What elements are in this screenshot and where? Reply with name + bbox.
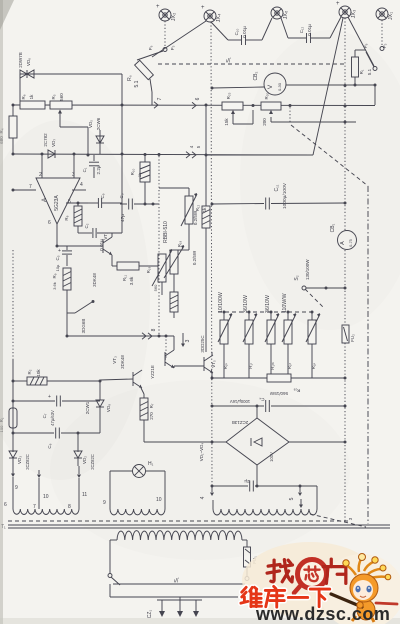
- resistor R11 3.6k: [112, 262, 158, 285]
- core line 1: [8, 524, 390, 526]
- wire bus y336: [66, 313, 175, 338]
- svg-text:R₆: R₆: [21, 94, 26, 99]
- svg-text:+: +: [336, 1, 340, 7]
- rheostat R18 560: [146, 249, 172, 295]
- zener VD8 2CW1: [85, 381, 111, 433]
- svg-text:2CW6: 2CW6: [96, 117, 101, 130]
- capacitor C11 1000u/100V: [212, 182, 347, 209]
- svg-text:0.01µ: 0.01µ: [242, 26, 247, 38]
- diode VD7 2C782: [43, 133, 56, 158]
- rheostat R1E: [306, 311, 320, 379]
- svg-text:6: 6: [195, 97, 201, 100]
- svg-text:0.2/5W: 0.2/5W: [192, 250, 197, 265]
- core dashed: [1, 521, 348, 530]
- svg-text:R₅: R₅: [51, 94, 56, 99]
- svg-text:JX₂: JX₂: [171, 13, 177, 22]
- watermark weiku yixia headline: [241, 587, 262, 606]
- terminal post JX6: [271, 7, 289, 19]
- ganged-switch dashed link S1: [158, 57, 345, 64]
- svg-text:+: +: [201, 5, 205, 11]
- node arrow 8: [142, 328, 157, 339]
- watermark pian character: [323, 559, 346, 583]
- wire bridge left: [212, 441, 226, 443]
- resistor R3 100: [0, 408, 17, 432]
- switch S1 mains: [108, 574, 245, 586]
- svg-text:560: 560: [59, 93, 64, 101]
- svg-text:5.1: 5.1: [134, 80, 140, 87]
- node arrow 7: [154, 97, 163, 108]
- svg-text:JX₄: JX₄: [216, 13, 222, 22]
- svg-text:VT₅: VT₅: [211, 360, 216, 368]
- rheostat R20 200: [261, 92, 356, 125]
- ammeter CB1: [330, 223, 357, 249]
- wire VT4 base: [165, 336, 166, 359]
- voltmeter CB2: [253, 71, 286, 95]
- wire pin7: [12, 189, 37, 192]
- capacitor C1 2.2u: [82, 155, 101, 178]
- resistor R0 5.1 (slanted): [127, 60, 153, 105]
- svg-text:FU₂: FU₂: [350, 334, 355, 342]
- svg-text:P₆: P₆: [148, 45, 153, 50]
- wire bus x212 dotted: [211, 22, 214, 488]
- svg-text:4: 4: [189, 145, 194, 148]
- resistor R24 0.2/5W: [170, 250, 197, 318]
- dashed corner bottom: [310, 514, 366, 527]
- wire bus y154: [12, 153, 314, 157]
- gang dashed link: [218, 311, 316, 313]
- wire JX2 stem: [163, 21, 167, 52]
- svg-text:560: 560: [153, 284, 158, 291]
- watermark zhao character: [267, 560, 292, 582]
- winding W4 primary: [117, 531, 242, 540]
- capacitor C2 0.01u: [78, 223, 122, 250]
- fuse FU2: [342, 325, 355, 343]
- svg-text:S₁: S₁: [226, 57, 232, 63]
- capacitor C6 47u: [119, 193, 159, 222]
- op-amp U1 5G23A: [29, 172, 83, 226]
- svg-text:2DW7B: 2DW7B: [18, 52, 23, 68]
- svg-text:P₅: P₅: [170, 45, 175, 50]
- watermark magnifier ring: [294, 560, 327, 594]
- terminal post JX2: [156, 4, 177, 21]
- wire bridge bottom: [256, 465, 259, 488]
- wire opamp out: [56, 224, 59, 248]
- transistor VT1 3DK48: [92, 232, 112, 287]
- dashed diagonal to border: [291, 125, 368, 186]
- svg-text:3: 3: [185, 339, 191, 342]
- lamp H1: [103, 461, 165, 509]
- terminal 9 arrow: [4, 466, 18, 509]
- transistor VT4 YZ21E: [150, 336, 204, 379]
- wire x78: [77, 433, 79, 450]
- bridge rectifier VD1-VD4: [199, 418, 289, 465]
- wire bridge top: [256, 405, 259, 419]
- node arrow 6: [192, 97, 201, 108]
- wire output top: [211, 87, 265, 90]
- wire base VT1: [57, 245, 103, 247]
- wire bridge right: [289, 441, 345, 443]
- wire bus x345 dotted: [344, 18, 347, 522]
- resistor R23 0.2/5W: [193, 206, 210, 352]
- svg-text:10: 10: [43, 494, 49, 500]
- winding W2: [110, 509, 165, 515]
- capacitor C8: [13, 428, 100, 449]
- rheostat R1A: [218, 292, 232, 378]
- resistor R4 680: [0, 105, 17, 154]
- wire JX3 to S1 right contact: [348, 17, 374, 66]
- wire JX3 to corner: [313, 18, 343, 155]
- winding W3: [213, 509, 317, 515]
- svg-text:8: 8: [151, 328, 157, 331]
- svg-text:15k: 15k: [224, 118, 229, 126]
- svg-text:CB₂: CB₂: [253, 71, 259, 80]
- svg-text:36/10W: 36/10W: [243, 295, 249, 313]
- svg-text:6: 6: [4, 502, 7, 508]
- wire bus x13 middle: [12, 250, 15, 452]
- resistor R1 5.1: [352, 50, 373, 85]
- capacitor C5 10u: [55, 246, 72, 271]
- rheostat R1D: [282, 293, 296, 378]
- wire JX1 stem: [380, 20, 384, 51]
- wire y156 right: [206, 154, 313, 156]
- svg-text:7: 7: [157, 97, 163, 100]
- capacitor C3 2u wire: [212, 479, 317, 492]
- wire vertical x206: [205, 105, 207, 206]
- svg-text:1k: 1k: [137, 173, 142, 177]
- diode VD2 2CZ82C: [74, 450, 95, 470]
- svg-text:VD₆: VD₆: [26, 58, 31, 66]
- svg-text:JX₁: JX₁: [388, 12, 394, 20]
- terminal 4 arrow: [200, 486, 214, 509]
- svg-text:3DD25C: 3DD25C: [200, 335, 205, 353]
- wire pin4 stub: [72, 189, 86, 191]
- zener VD6 2DW7B: [18, 52, 122, 152]
- svg-text:C₁₂: C₁₂: [299, 26, 304, 33]
- terminal 10 arrow: [33, 470, 49, 510]
- svg-text:VD₅: VD₅: [88, 120, 93, 128]
- svg-text:R₁₉: R₁₉: [177, 241, 182, 248]
- zener VD5 2CW6: [88, 117, 104, 154]
- core line 2: [8, 527, 390, 529]
- wire primary left: [110, 540, 117, 573]
- svg-text:RBBI-510: RBBI-510: [163, 221, 169, 243]
- svg-text:9: 9: [15, 485, 18, 491]
- wire x122: [121, 152, 123, 233]
- rheostat R25 15k: [222, 92, 253, 125]
- svg-text:3: 3: [348, 517, 353, 520]
- switch S2: [294, 259, 345, 308]
- capacitor C7 47u/63V: [13, 394, 100, 426]
- mascot head: [350, 574, 378, 602]
- transistor VT3 3DK48: [100, 355, 144, 398]
- terminal 11 arrow: [68, 466, 87, 510]
- svg-text:R₂₆: R₂₆: [293, 388, 300, 393]
- rheostat R12 1k: [159, 188, 207, 250]
- winding W1: [13, 509, 79, 515]
- watermark glow: [242, 542, 378, 618]
- terminal post JX1: [376, 8, 394, 20]
- svg-text:JX₃: JX₃: [351, 10, 357, 19]
- mascot: [331, 554, 397, 623]
- svg-text:R₁ₘ: R₁ₘ: [270, 362, 275, 370]
- svg-text:R₀: R₀: [127, 75, 133, 81]
- label RBBI-510: [163, 221, 169, 243]
- wire W3 right leg: [316, 486, 318, 509]
- svg-text:R₁ₗ: R₁ₗ: [248, 363, 253, 369]
- switch S1 blade to R0: [137, 51, 163, 60]
- terminal 5 arrow: [289, 486, 303, 508]
- mascot body: [357, 600, 375, 620]
- resistor R8: [64, 203, 82, 233]
- diode VD3 2CZ82C: [9, 450, 30, 470]
- capacitor C12 0.01u: [281, 17, 341, 43]
- label P6 right: [363, 43, 387, 48]
- svg-text:1k: 1k: [29, 94, 34, 100]
- resistor R10 1k: [130, 155, 150, 204]
- svg-text:+: +: [156, 4, 160, 10]
- wire main bus y105: [12, 104, 376, 108]
- fuse FU1: [242, 540, 257, 581]
- capacitor C4 1000u/16V: [212, 397, 345, 412]
- wire bus y378: [212, 377, 345, 379]
- terminal post JX4: [201, 5, 222, 22]
- watermark url text: [256, 604, 390, 624]
- mascot tentacles: [345, 564, 356, 575]
- wire pin2 stub: [41, 155, 43, 178]
- transistor VT5 3DD25C: [200, 335, 216, 378]
- svg-text:JX₆: JX₆: [283, 11, 289, 20]
- terminal post JX3: [336, 1, 357, 18]
- resistor R9 3.6k: [52, 268, 71, 313]
- wire x159 dotted bus: [158, 156, 160, 336]
- svg-text:S₁: S₁: [174, 577, 180, 583]
- node arrows 4 5: [186, 145, 201, 158]
- switch S1 blade from JX4: [152, 21, 206, 57]
- wire pin3 stub: [73, 155, 75, 178]
- wire meter to right: [286, 84, 377, 106]
- enclosure border dash-dot: [367, 186, 369, 524]
- svg-text:R₂₅: R₂₅: [226, 92, 231, 99]
- resistor R5 560 pot: [50, 93, 88, 155]
- plug CZ1: [147, 597, 202, 618]
- rheostat R1B: [243, 295, 257, 378]
- switch S1 right contact: [366, 52, 377, 71]
- rheostat R19: [164, 241, 184, 292]
- svg-text:P₅: P₅: [382, 43, 387, 48]
- svg-text:36/10W: 36/10W: [265, 295, 271, 313]
- svg-text:10/100W: 10/100W: [218, 292, 224, 313]
- capacitor C9: [88, 193, 122, 208]
- node arrow 3: [181, 333, 191, 347]
- svg-text:R₁₀: R₁₀: [130, 169, 135, 176]
- svg-text:0.2/5W: 0.2/5W: [193, 210, 198, 225]
- mascot pen: [331, 594, 362, 607]
- svg-text:CZ₁: CZ₁: [147, 610, 153, 619]
- svg-text:R₁₂: R₁₂: [195, 204, 200, 211]
- capacitor C10 0.01u: [211, 18, 272, 45]
- svg-text:R₁ₙ: R₁ₙ: [287, 363, 292, 370]
- svg-text:C₁₀: C₁₀: [234, 29, 239, 36]
- watermark xin character: [304, 566, 319, 581]
- rheostat R1C: [265, 295, 279, 378]
- resistor R26 560/15W: [267, 374, 300, 396]
- resistor R6 1k: [20, 94, 45, 109]
- svg-text:R₁ₚ: R₁ₚ: [311, 363, 316, 370]
- wire pin5 stub: [66, 202, 88, 205]
- svg-text:YZ21E: YZ21E: [150, 365, 155, 379]
- switch contact K1: [67, 300, 95, 333]
- svg-text:5: 5: [196, 145, 201, 148]
- wire to plug: [110, 584, 238, 597]
- resistor R2 10k: [13, 369, 102, 385]
- svg-text:7: 7: [33, 504, 36, 510]
- label P6 left: [148, 45, 175, 50]
- resistor R7 270: [140, 398, 212, 442]
- svg-text:R₁ₖ: R₁ₖ: [223, 363, 228, 370]
